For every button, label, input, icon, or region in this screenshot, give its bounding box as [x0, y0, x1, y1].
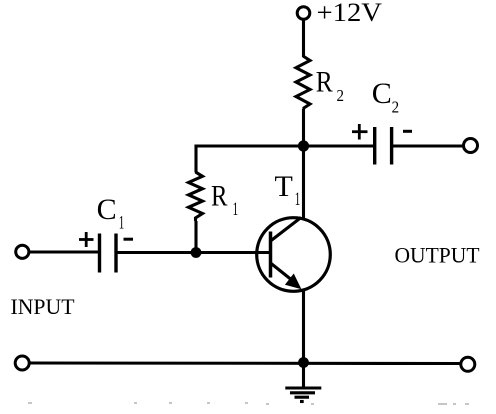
svg-text:R: R: [211, 180, 228, 213]
svg-text:R: R: [316, 66, 333, 99]
svg-text:OUTPUT: OUTPUT: [395, 243, 481, 268]
svg-text:1: 1: [295, 189, 301, 210]
svg-text:2: 2: [337, 86, 345, 105]
svg-text:+12V: +12V: [317, 0, 383, 27]
svg-text:1: 1: [233, 199, 239, 220]
svg-text:T: T: [275, 170, 293, 203]
svg-text:C: C: [97, 193, 117, 226]
svg-text:C: C: [372, 77, 392, 110]
svg-text:2: 2: [392, 98, 400, 117]
svg-text:INPUT: INPUT: [11, 294, 76, 319]
svg-text:1: 1: [119, 213, 125, 234]
